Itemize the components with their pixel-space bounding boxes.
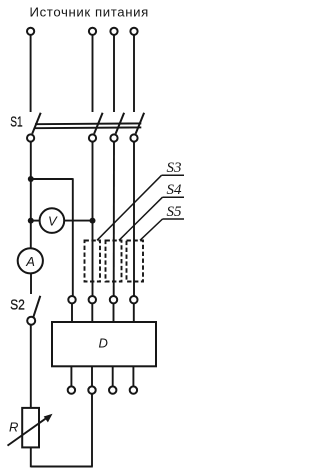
contactor S4 dashed box — [106, 241, 122, 282]
leader S4 diagonal — [119, 197, 163, 240]
wire: voltmeter left lead — [31, 220, 41, 222]
wire: X3 to S1 pole3 — [113, 35, 115, 112]
leader S5 diagonal — [140, 219, 163, 240]
wire: D-in1 stem — [71, 303, 73, 322]
switch S1 linkage bar lower — [35, 126, 141, 129]
wire: phase2 S1 down to D — [92, 142, 94, 296]
wire: D-out1 stem — [70, 366, 72, 386]
switch S1 pole2 blade — [94, 113, 103, 134]
wire: D-out2 down — [91, 394, 93, 467]
terminal D-out3 — [109, 386, 116, 393]
switch S1 linkage bar upper — [35, 122, 141, 125]
switch S1 pole4 blade — [136, 113, 145, 134]
terminal X1 — [27, 28, 34, 35]
terminal D-in4 — [130, 296, 137, 303]
terminal D-in1 — [68, 296, 75, 303]
rheostat R body — [22, 408, 39, 448]
wire: bypass horizontal — [31, 178, 73, 180]
junction: phase2 / voltmeter — [90, 218, 96, 224]
wire: voltmeter right lead — [64, 220, 93, 222]
switch S1 pole3 blade — [116, 113, 125, 134]
switch S1 pole1 blade — [32, 113, 41, 134]
wire: phase3 S1 down to D — [113, 142, 115, 296]
leader S5 horizontal — [163, 218, 185, 220]
wire: phase1 S1 down to ammeter — [30, 142, 32, 249]
wire: phase4 S1 down to D — [133, 142, 135, 296]
junction: phase1 / bypass — [28, 176, 34, 182]
wire: D-in2 stem — [91, 303, 93, 322]
terminal X3 — [110, 28, 117, 35]
svg-text:S3: S3 — [167, 160, 182, 176]
voltmeter V circle — [40, 208, 65, 233]
svg-text:S2: S2 — [10, 298, 25, 314]
device D box — [52, 322, 156, 366]
svg-text:S5: S5 — [167, 204, 183, 220]
leader S4 horizontal — [163, 196, 185, 198]
rheostat R arrow shaft — [8, 416, 50, 445]
wire: X1 to S1 pole1 — [30, 35, 32, 112]
switch S1 pole3 contact circle — [110, 134, 117, 141]
leader S3 horizontal — [162, 174, 185, 176]
svg-text:A: A — [25, 254, 35, 269]
terminal D-in2 — [89, 296, 96, 303]
leader S3 diagonal — [97, 175, 162, 240]
wire: X2 to S1 pole2 — [92, 35, 94, 112]
terminal D-out2 — [88, 386, 95, 393]
terminal D-out1 — [68, 386, 75, 393]
wire: bypass vertical down to D input1 — [72, 178, 74, 296]
wire: D-out2 stem — [91, 366, 93, 386]
wire: ammeter to S2 — [30, 273, 32, 294]
svg-text:Источник питания: Источник питания — [30, 5, 149, 20]
rheostat R arrow head — [44, 414, 53, 423]
svg-text:S1: S1 — [10, 115, 22, 131]
wire: S2 down to rheostat R — [30, 325, 32, 408]
wire: D-in3 stem — [113, 303, 115, 322]
switch S1 pole2 contact circle — [89, 134, 96, 141]
terminal D-out4 — [130, 386, 137, 393]
terminal X4 — [130, 28, 137, 35]
wire: up into R bottom — [30, 447, 32, 467]
wire: D-out4 stem — [132, 366, 134, 386]
terminal D-in3 — [110, 296, 117, 303]
junction: phase1 / voltmeter — [28, 218, 34, 224]
switch S1 pole4 contact circle — [130, 134, 137, 141]
contactor S5 dashed box — [127, 241, 144, 282]
switch S2 blade — [33, 296, 40, 317]
contactor S3 dashed box — [85, 241, 101, 282]
ammeter A circle — [18, 248, 43, 273]
switch S2 contact circle — [27, 317, 35, 325]
wire: D-in4 stem — [133, 303, 135, 322]
terminal X2 — [89, 28, 96, 35]
wire: D-out3 stem — [112, 366, 114, 386]
svg-text:D: D — [99, 336, 108, 351]
svg-text:S4: S4 — [167, 182, 183, 198]
svg-text:V: V — [48, 213, 58, 228]
switch S1 pole1 contact circle — [27, 134, 34, 141]
svg-text:R: R — [9, 420, 18, 435]
wire: X4 to S1 pole4 — [133, 35, 135, 112]
wire: bottom horizontal to R — [31, 466, 93, 468]
